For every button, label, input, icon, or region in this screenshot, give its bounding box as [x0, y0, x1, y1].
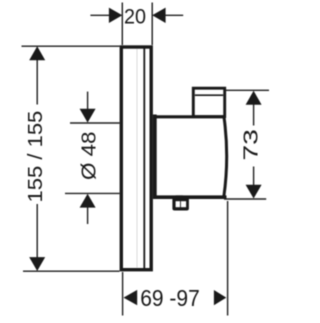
- svg-text:155 / 155: 155 / 155: [25, 111, 47, 203]
- svg-text:73: 73: [241, 129, 263, 161]
- svg-text:20: 20: [124, 5, 146, 29]
- svg-text:69 -97: 69 -97: [140, 285, 200, 311]
- svg-text:Ø 48: Ø 48: [79, 132, 101, 181]
